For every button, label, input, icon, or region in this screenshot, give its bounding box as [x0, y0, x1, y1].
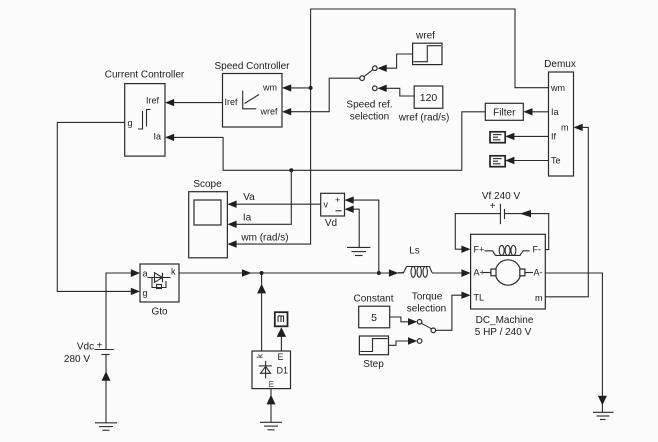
svg-text:Va: Va [243, 192, 255, 203]
wire Vd output to Scope Va input [227, 201, 320, 208]
svg-text:E: E [278, 352, 284, 362]
display block Te [490, 156, 505, 167]
junction node bus to Vd [377, 271, 381, 275]
svg-text:Vf 240 V: Vf 240 V [482, 191, 521, 202]
block Current Controller [105, 70, 185, 157]
svg-text:Ia: Ia [243, 213, 252, 224]
svg-text:DC_Machine: DC_Machine [476, 315, 534, 326]
constant block 120 [398, 86, 450, 123]
svg-text:wm (rad/s): wm (rad/s) [240, 233, 288, 244]
svg-text:F+: F+ [474, 244, 485, 254]
svg-text:TL: TL [474, 292, 485, 302]
wire Vd plus input from armature bus [345, 196, 379, 273]
block Speed Controller [214, 61, 290, 127]
svg-text:a: a [143, 269, 148, 279]
wire DC machine m output to Demux m input [545, 124, 588, 297]
wire Current Controller g output to Gto g input [57, 122, 140, 295]
block Filter [485, 103, 523, 120]
svg-text:v: v [324, 200, 329, 210]
wire wref block to switch upper contact [378, 54, 413, 72]
wire Demux If to display [505, 133, 548, 140]
wire Demux Ia to Filter input [523, 108, 548, 115]
wire constant to torque switch upper contact [390, 317, 418, 326]
svg-text:wm: wm [550, 83, 565, 93]
svg-text:Constant: Constant [353, 293, 393, 304]
ground for D1 [260, 422, 282, 430]
junction node wm branch [309, 86, 313, 90]
source Vdc battery [64, 340, 114, 365]
switch speed ref selection [346, 66, 392, 123]
svg-text:Gto: Gto [151, 307, 168, 318]
svg-text:Vdc: Vdc [77, 342, 94, 353]
svg-text:wref: wref [260, 107, 279, 117]
svg-text:Filter: Filter [493, 107, 516, 118]
svg-text:280 V: 280 V [64, 354, 90, 365]
svg-text:m: m [267, 380, 276, 387]
display block If [490, 132, 505, 143]
block DC Machine [471, 234, 546, 337]
svg-text:Ia: Ia [551, 107, 559, 117]
svg-text:g: g [128, 118, 133, 128]
switch torque selection [407, 291, 446, 343]
svg-text:m: m [535, 293, 543, 303]
svg-text:+: + [490, 201, 496, 212]
wire Vdc plus up to Gto a input [106, 269, 140, 349]
wire switch pole to Speed Controller wref input [282, 78, 360, 115]
source wref step block [413, 31, 442, 65]
junction node bus to D1 [260, 271, 264, 275]
svg-text:Demux: Demux [544, 59, 576, 70]
wire Ia branch to Scope Ia input [227, 170, 291, 228]
block Vd voltage measurement [321, 193, 345, 229]
ground for Vd minus [347, 247, 370, 255]
svg-text:Current Controller: Current Controller [105, 70, 185, 81]
svg-text:Scope: Scope [193, 179, 222, 190]
wire Demux Te to display [505, 157, 548, 164]
source Vf battery [482, 191, 521, 224]
svg-text:selection: selection [350, 112, 389, 123]
wire torque switch pole to DC machine TL input [436, 292, 471, 331]
svg-text:5 HP / 240 V: 5 HP / 240 V [475, 327, 532, 338]
svg-text:D1: D1 [277, 366, 289, 376]
wire wm to Speed Controller wm input [282, 84, 311, 91]
wire Speed Controller Iref output to Current Controller Iref input [165, 99, 223, 106]
svg-text:g: g [143, 288, 148, 298]
block Scope [189, 179, 228, 258]
inductor Ls [398, 245, 432, 277]
svg-text:5: 5 [371, 312, 377, 324]
svg-text:Iref: Iref [146, 96, 160, 106]
ground for A- [593, 412, 614, 419]
svg-text:Ls: Ls [409, 245, 420, 256]
svg-text:If: If [551, 132, 557, 142]
svg-text:selection: selection [407, 303, 446, 314]
svg-text:Ia: Ia [154, 132, 162, 142]
svg-text:Torque: Torque [412, 291, 443, 302]
svg-text:Te: Te [551, 156, 561, 166]
svg-text:wref: wref [415, 31, 435, 42]
wire Vd minus input to ground [345, 206, 360, 248]
wire D1 E output up to display [277, 327, 286, 351]
wire D1 m to ground with arrow [267, 389, 276, 423]
svg-text:Vd: Vd [325, 218, 337, 229]
svg-text:k: k [171, 267, 176, 277]
wire Vdc minus to ground with arrow [102, 355, 111, 423]
wire DC machine A- to ground with arrow [545, 273, 607, 412]
wire DC machine F- to Vf minus with arrow [505, 210, 549, 250]
wire bus down to D1 k with arrow [257, 273, 266, 351]
svg-text:A-: A- [534, 268, 543, 278]
svg-text:120: 120 [420, 92, 438, 104]
svg-text:wm: wm [262, 83, 277, 93]
wire Vf plus to DC machine F+ input [455, 214, 500, 253]
svg-text:F-: F- [533, 244, 542, 254]
wire wm feedback loop (Demux wm to Scope wm) [227, 9, 548, 248]
svg-text:Iref: Iref [225, 97, 239, 107]
wire Ia feedback (Filter output to Current Controller Ia input) [165, 112, 485, 171]
block Gto [140, 264, 179, 318]
source Step block [359, 336, 388, 370]
svg-text:m: m [561, 122, 569, 132]
wire armature bus Gto k to DC machine A+ [179, 269, 471, 277]
svg-text:Step: Step [363, 359, 384, 370]
wire 120 block to switch lower contact [378, 85, 415, 96]
svg-text:wref (rad/s): wref (rad/s) [398, 112, 450, 123]
display block E measurement [275, 312, 288, 326]
constant block 5 [353, 293, 393, 328]
svg-text:+: + [335, 195, 340, 205]
ground for Vdc [95, 423, 117, 430]
block D1 snubber diode [252, 351, 291, 389]
svg-text:Speed ref.: Speed ref. [346, 100, 392, 111]
wire step to torque switch lower contact [389, 337, 418, 345]
svg-text:Speed Controller: Speed Controller [214, 61, 290, 72]
block Demux [544, 59, 576, 176]
junction node Ia to scope [289, 168, 293, 172]
